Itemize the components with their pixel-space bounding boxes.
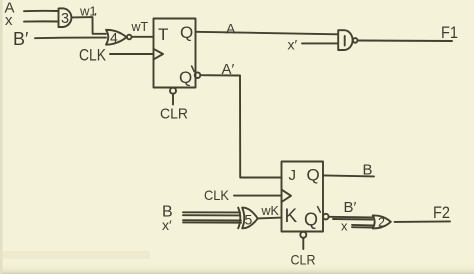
svg-text:w1: w1 xyxy=(79,4,97,19)
svg-text:Q: Q xyxy=(179,68,192,87)
bubble CLR T-FF xyxy=(170,88,176,94)
label 1 inside gate 1 xyxy=(344,36,346,46)
wire A net xyxy=(196,32,339,35)
svg-text:B: B xyxy=(363,162,373,179)
wire B net xyxy=(323,175,374,176)
clock triangle T-FF xyxy=(154,49,164,60)
svg-text:5: 5 xyxy=(245,212,253,228)
svg-text:Q: Q xyxy=(180,23,193,42)
svg-text:A: A xyxy=(226,21,236,37)
wire x net double xyxy=(352,225,373,228)
wire B' net double xyxy=(329,217,373,220)
wire F2 xyxy=(395,220,451,223)
wire input B' xyxy=(35,37,106,40)
wire input B double xyxy=(183,212,240,215)
svg-text:Q: Q xyxy=(304,210,318,230)
svg-text:x′: x′ xyxy=(162,217,172,233)
svg-text:wK: wK xyxy=(261,204,280,218)
svg-text:B′: B′ xyxy=(13,29,29,49)
stray dot after w1 xyxy=(95,13,97,15)
bubble CLR JK xyxy=(300,232,306,238)
wire input x xyxy=(24,20,58,22)
svg-text:CLR: CLR xyxy=(160,107,188,123)
svg-text:F1: F1 xyxy=(441,23,458,42)
JK flip-flop U2 box xyxy=(282,162,324,232)
svg-text:B′: B′ xyxy=(344,199,357,216)
svg-text:K: K xyxy=(285,206,298,227)
clock triangle JK xyxy=(282,190,292,202)
wire CLK bottom xyxy=(234,195,282,197)
svg-text:3: 3 xyxy=(61,11,69,27)
svg-text:T: T xyxy=(158,25,168,44)
wire input A xyxy=(24,10,58,12)
bubble Q' JK xyxy=(323,214,329,220)
wire input x' bottom double xyxy=(183,220,241,223)
bubble gate 1 xyxy=(353,38,358,43)
svg-text:CLK: CLK xyxy=(204,187,230,203)
wire CLK top xyxy=(110,53,153,55)
svg-text:Q: Q xyxy=(307,166,320,185)
svg-text:A′: A′ xyxy=(222,61,235,78)
AND gate 3 xyxy=(59,8,72,27)
NOR gate 4 xyxy=(106,30,127,45)
wire x' top xyxy=(302,42,338,44)
prime tick Q' T-FF xyxy=(192,66,195,72)
NAND gate 1 xyxy=(338,30,352,50)
XOR gate 5 xyxy=(238,208,258,229)
svg-text:2: 2 xyxy=(378,216,385,230)
T flip-flop U1 box xyxy=(154,19,196,88)
svg-text:CLK: CLK xyxy=(79,46,107,65)
prime tick Q' JK xyxy=(318,207,321,213)
svg-text:x: x xyxy=(5,12,13,29)
svg-text:4: 4 xyxy=(110,30,118,46)
wire CLR stem bottom xyxy=(302,238,304,249)
svg-text:J: J xyxy=(289,167,297,184)
OR gate 2 xyxy=(373,215,391,228)
bubble gate 4 xyxy=(127,35,132,40)
wire w1 xyxy=(73,17,107,34)
svg-text:CLR: CLR xyxy=(291,252,316,268)
bubble Q' T-FF xyxy=(195,72,201,78)
svg-text:x′: x′ xyxy=(288,37,298,53)
wire A' net xyxy=(200,75,281,177)
wire F1 xyxy=(358,40,452,43)
wire CLR stem top xyxy=(172,94,174,105)
wire wT xyxy=(132,36,153,38)
svg-text:x: x xyxy=(341,219,348,234)
svg-text:F2: F2 xyxy=(433,203,450,222)
svg-text:wT: wT xyxy=(131,20,149,34)
wire wK xyxy=(258,217,282,220)
